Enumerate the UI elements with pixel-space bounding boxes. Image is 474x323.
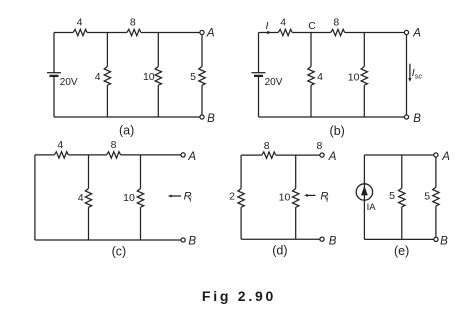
svg-text:8: 8	[264, 140, 270, 152]
wire (b) short-circuit A to B	[406, 35, 408, 115]
terminal B (c)	[181, 238, 185, 242]
wire (e) top rail	[364, 154, 433, 156]
resistor 5 (e) middle vertical	[399, 188, 405, 207]
terminal B (e)	[434, 237, 438, 241]
svg-text:4: 4	[317, 71, 323, 83]
resistor 4 (b) vertical at node C	[308, 67, 314, 86]
resistor 10 (d) vertical	[293, 189, 299, 208]
wire (c) 10-ohm branch lower	[140, 207, 142, 240]
svg-text:I: I	[266, 20, 269, 32]
Ri arrowhead	[168, 195, 172, 198]
current source circle	[356, 184, 372, 200]
svg-text:10: 10	[279, 191, 291, 203]
wire (e) 5-ohm right branch lower	[435, 206, 437, 238]
terminal A (e)	[434, 153, 438, 157]
resistor 4 (a) vertical	[104, 67, 110, 86]
wire (a) 10-ohm branch lower	[157, 85, 159, 117]
resistor 10 (a) vertical	[155, 67, 161, 86]
svg-text:i: i	[326, 195, 328, 204]
resistor 2 (d) vertical	[238, 189, 244, 208]
wire (c) 4-ohm branch lower	[88, 207, 90, 240]
wire (e) 5-ohm middle branch lower	[401, 207, 403, 240]
resistor 5 (a) vertical	[199, 67, 205, 86]
svg-text:8: 8	[333, 17, 339, 29]
svg-text:B: B	[413, 113, 421, 125]
resistor 8 (a) top horizontal	[127, 29, 141, 35]
wire (c) 4-ohm branch upper	[88, 155, 90, 189]
svg-text:C: C	[308, 20, 316, 32]
svg-text:(c): (c)	[112, 245, 127, 259]
svg-text:B: B	[188, 236, 196, 248]
resistor 10 (c) vertical	[137, 189, 143, 208]
wire (c) top rail middle segment	[68, 154, 106, 156]
wire (c) top rail left segment	[35, 154, 54, 156]
terminal A (d)	[320, 153, 324, 157]
svg-text:10: 10	[143, 71, 155, 83]
wire (d) top rail right segment	[276, 154, 320, 156]
wire (d) 2-ohm branch upper	[240, 155, 242, 188]
svg-text:4: 4	[57, 139, 63, 151]
wire (b) top rail right segment	[345, 32, 405, 34]
wire (a) 4-ohm branch lower	[106, 85, 108, 117]
svg-text:B: B	[207, 113, 215, 125]
wire (b) battery branch upper	[258, 33, 260, 73]
resistor 5 (e) right vertical	[433, 187, 439, 206]
svg-text:10: 10	[348, 72, 360, 84]
current arrow I	[267, 31, 271, 34]
current source arrow	[361, 186, 368, 196]
svg-text:20V: 20V	[265, 77, 283, 88]
wire (e) 5-ohm right branch upper	[435, 157, 437, 187]
Ri arrow line	[307, 194, 315, 196]
svg-text:B: B	[329, 235, 337, 247]
battery long plate	[47, 72, 61, 74]
Isc arrowhead	[408, 78, 411, 82]
svg-text:B: B	[440, 235, 448, 247]
svg-text:5: 5	[190, 71, 196, 83]
wire (d) 10-ohm branch upper	[295, 155, 297, 188]
svg-text:4: 4	[280, 17, 286, 29]
svg-text:A: A	[441, 151, 450, 163]
svg-text:4: 4	[77, 17, 83, 29]
terminal B (b)	[404, 115, 408, 119]
wire (b) node C branch upper	[310, 33, 312, 67]
svg-text:2: 2	[229, 190, 235, 202]
Ri arrow line	[171, 195, 181, 197]
circuit (d)	[229, 140, 337, 258]
resistor 4 (a) top-left horizontal	[73, 29, 87, 35]
wire (b) 10-ohm branch lower	[363, 85, 365, 117]
resistor 4 (c) vertical	[85, 189, 91, 208]
resistor 8 (b) horizontal	[331, 29, 345, 35]
svg-text:Fig 2.90: Fig 2.90	[202, 288, 276, 304]
battery short plate	[50, 75, 59, 77]
svg-text:sc: sc	[415, 71, 423, 80]
wire (a) top rail left segment	[54, 32, 73, 34]
wire (b) battery branch lower	[258, 76, 260, 117]
wire (a) top rail right segment	[141, 32, 200, 34]
wire (b) 10-ohm branch upper	[363, 33, 365, 67]
svg-text:4: 4	[78, 192, 84, 204]
wire (c) bottom rail	[35, 239, 181, 241]
wire (a) battery branch lower	[53, 76, 55, 117]
circuit (a)	[47, 17, 215, 138]
wire (d) bottom rail	[241, 238, 320, 240]
svg-text:IA: IA	[367, 202, 377, 213]
wire (c) top rail right segment	[121, 154, 181, 156]
resistor 4 (b) horizontal	[278, 29, 292, 35]
battery short plate	[254, 75, 263, 77]
terminal A (b)	[404, 30, 408, 34]
svg-text:A: A	[328, 151, 337, 163]
svg-text:8: 8	[130, 17, 136, 29]
svg-text:10: 10	[123, 192, 135, 204]
svg-text:(a): (a)	[119, 124, 134, 138]
wire (a) top rail middle segment	[87, 32, 127, 34]
wire (a) battery branch upper	[53, 33, 55, 73]
resistor 10 (b) vertical	[361, 67, 367, 86]
circuit (e)	[356, 151, 450, 258]
svg-text:8: 8	[111, 139, 117, 151]
wire (a) 5-ohm branch lower	[201, 85, 203, 115]
svg-text:8: 8	[316, 140, 322, 152]
terminal B (a)	[200, 115, 204, 119]
wire (b) bottom rail	[259, 116, 405, 118]
wire (e) 5-ohm middle branch upper	[401, 155, 403, 188]
battery long plate	[252, 72, 266, 74]
Isc arrow line	[409, 64, 411, 79]
wire (b) top rail left segment	[259, 32, 279, 34]
svg-text:(d): (d)	[272, 244, 287, 258]
svg-text:4: 4	[95, 71, 101, 83]
wire (a) 4-ohm branch upper	[106, 33, 108, 67]
svg-text:A: A	[206, 28, 215, 40]
svg-text:(b): (b)	[330, 124, 345, 138]
terminal A (c)	[181, 153, 185, 157]
svg-text:20V: 20V	[60, 77, 78, 88]
wire (a) 5-ohm branch upper	[201, 35, 203, 67]
Ri arrowhead	[304, 194, 308, 197]
resistor 4 (c) horizontal	[54, 152, 68, 158]
svg-text:A: A	[187, 151, 196, 163]
wire (d) 10-ohm branch lower	[295, 207, 297, 239]
svg-text:5: 5	[389, 190, 395, 202]
wire (b) top rail second segment	[292, 32, 331, 34]
wire (e) current source branch	[363, 155, 365, 239]
terminal B (d)	[320, 237, 324, 241]
terminal A (a)	[200, 30, 204, 34]
svg-text:A: A	[412, 28, 421, 40]
wire (d) top rail left segment	[241, 154, 262, 156]
circuit (c)	[35, 139, 197, 259]
wire (a) bottom rail	[54, 116, 200, 118]
resistor 8 (d) horizontal	[262, 152, 276, 158]
wire (d) 2-ohm branch lower	[240, 207, 242, 239]
circuit (b)	[252, 17, 423, 138]
svg-text:(e): (e)	[394, 244, 409, 258]
wire (c) left edge	[34, 155, 36, 240]
wire (e) bottom rail	[364, 238, 433, 240]
svg-text:5: 5	[424, 191, 430, 203]
svg-text:i: i	[190, 195, 192, 204]
resistor 8 (c) horizontal	[107, 152, 121, 158]
wire (c) 10-ohm branch upper	[140, 155, 142, 189]
wire (b) node C branch lower	[310, 85, 312, 117]
wire (a) 10-ohm branch upper	[157, 33, 159, 67]
